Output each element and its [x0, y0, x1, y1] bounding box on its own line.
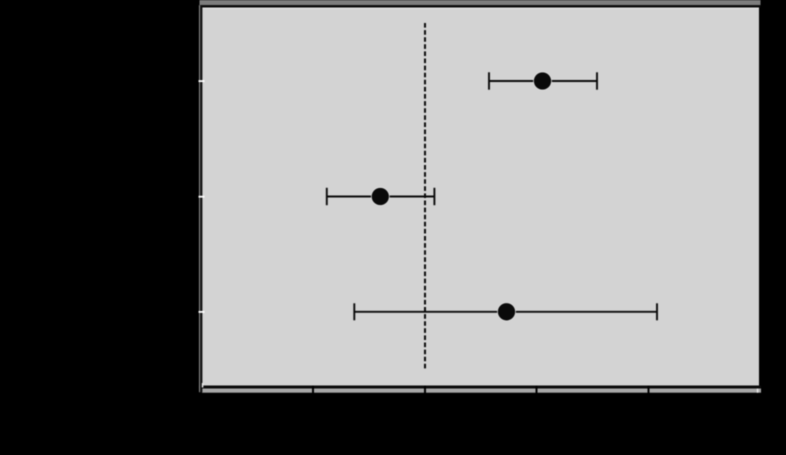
y tick row 3	[199, 311, 205, 313]
error bar row 2 line	[327, 196, 435, 198]
left spine outer gray line	[199, 5, 200, 392]
x tick at 649	[648, 386, 650, 394]
error bar row 1 line	[489, 80, 597, 82]
error bar row 3 left cap	[353, 303, 355, 320]
plot panel	[201, 7, 759, 386]
point row 2	[371, 188, 389, 206]
bottom spine	[199, 386, 762, 389]
x tick white notch right corner	[757, 389, 759, 393]
bottom outer gray band	[202, 389, 761, 393]
error bar row 1 right cap	[596, 72, 598, 89]
top spine	[199, 5, 761, 7]
y tick row 2	[199, 196, 205, 198]
reference dashed vertical line x=425	[424, 23, 426, 370]
error bar row 2 right cap	[433, 188, 435, 205]
x tick at 425	[424, 386, 426, 394]
x tick at 537	[536, 386, 538, 394]
error bar row 1 left cap	[488, 72, 490, 89]
error bar row 3 line	[354, 311, 657, 313]
top inner highlight	[202, 8, 759, 9]
error bar row 3 right cap	[656, 303, 658, 320]
point row 1	[534, 72, 552, 90]
x tick at 313	[312, 386, 314, 394]
x tick white notch left corner	[202, 383, 204, 388]
y tick row 1	[199, 80, 205, 82]
point row 3	[498, 303, 516, 321]
error bar row 2 left cap	[326, 188, 328, 205]
top outer gray band	[200, 0, 761, 5]
left spine	[200, 5, 202, 392]
